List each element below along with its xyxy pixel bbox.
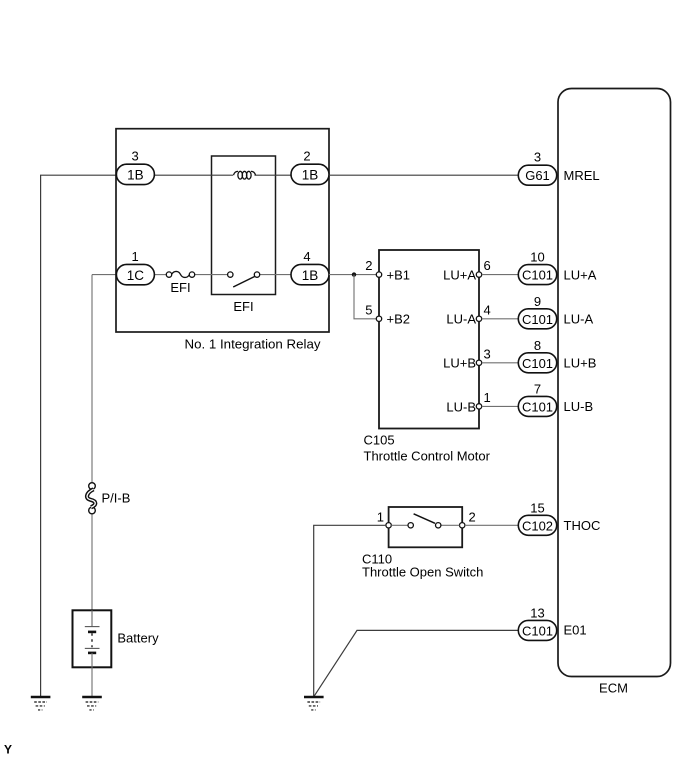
ECM — [558, 89, 671, 696]
svg-text:2: 2 — [469, 510, 476, 525]
svg-text:ECM: ECM — [599, 681, 628, 696]
connector C101 pin 10 — [518, 250, 596, 285]
svg-text:4: 4 — [484, 302, 491, 317]
connector C101 pin 7 — [518, 381, 593, 416]
switch contacts — [391, 514, 459, 528]
svg-text:2: 2 — [365, 258, 372, 273]
pin 4 LU-A — [446, 302, 490, 326]
svg-text:C105: C105 — [364, 433, 395, 448]
pin 5 +B2 — [365, 302, 410, 326]
pin 6 LU+A — [443, 258, 491, 282]
wire battery net vertical — [92, 275, 116, 627]
svg-text:C101: C101 — [522, 268, 553, 283]
svg-text:1B: 1B — [302, 268, 319, 283]
switch pin 1 — [377, 510, 392, 529]
motor C105 Throttle Control Motor — [364, 250, 491, 464]
svg-text:10: 10 — [530, 250, 544, 265]
wire LU-A — [482, 318, 519, 320]
junction node — [352, 272, 356, 276]
svg-text:LU+B: LU+B — [564, 356, 597, 371]
svg-text:C101: C101 — [522, 623, 553, 638]
switch C110 Throttle Open Switch — [362, 507, 483, 580]
wire junction to +B2 — [354, 275, 376, 319]
svg-text:LU-A: LU-A — [446, 312, 476, 327]
ground (battery) — [82, 697, 102, 710]
wire LU+A — [482, 274, 519, 276]
page index Y — [4, 743, 12, 757]
No. 1 Integration Relay box — [116, 129, 329, 352]
svg-text:6: 6 — [484, 258, 491, 273]
connector G61 pin 3 — [518, 150, 599, 186]
svg-text:EFI: EFI — [170, 280, 190, 295]
svg-text:7: 7 — [534, 381, 541, 396]
svg-text:LU+A: LU+A — [443, 268, 476, 283]
relay EFI inner box — [212, 156, 276, 314]
svg-text:4: 4 — [303, 249, 310, 264]
svg-text:No. 1 Integration Relay: No. 1 Integration Relay — [185, 337, 321, 352]
fusible link P/I-B — [87, 483, 130, 514]
battery — [73, 610, 160, 697]
relay switch contacts — [228, 272, 260, 287]
pin 3 LU+B — [443, 346, 491, 370]
ground (E01 / switch) — [304, 697, 324, 710]
connector C101 pin 13 — [518, 605, 586, 640]
svg-text:C101: C101 — [522, 312, 553, 327]
svg-text:1C: 1C — [127, 268, 145, 283]
svg-text:13: 13 — [530, 605, 544, 620]
svg-text:1B: 1B — [302, 168, 319, 183]
svg-text:3: 3 — [131, 149, 138, 164]
switch pin 2 — [460, 510, 476, 529]
relay coil — [234, 171, 256, 179]
terminal 1C pin 1 — [116, 249, 154, 285]
wire relay top row — [154, 174, 291, 176]
svg-text:9: 9 — [534, 294, 541, 309]
pin 1 LU-B — [446, 390, 490, 414]
svg-text:C101: C101 — [522, 356, 553, 371]
svg-text:1: 1 — [131, 249, 138, 264]
svg-text:15: 15 — [530, 500, 544, 515]
svg-text:MREL: MREL — [564, 168, 600, 183]
wire E01 — [314, 630, 519, 696]
wire LU-B — [482, 405, 519, 407]
svg-text:3: 3 — [534, 150, 541, 165]
svg-text:Y: Y — [4, 743, 12, 757]
svg-text:5: 5 — [365, 302, 372, 317]
pin 2 +B1 — [365, 258, 410, 282]
svg-text:Battery: Battery — [117, 631, 159, 646]
connector C102 pin 15 — [518, 500, 600, 535]
terminal 1B pin 2 — [291, 149, 329, 185]
svg-text:3: 3 — [484, 346, 491, 361]
fuse EFI — [166, 271, 194, 295]
svg-text:E01: E01 — [564, 623, 587, 638]
svg-text:LU+B: LU+B — [443, 356, 476, 371]
connector C101 pin 9 — [518, 294, 593, 329]
svg-text:8: 8 — [534, 338, 541, 353]
svg-text:1: 1 — [484, 390, 491, 405]
wire MREL net left branch — [41, 175, 117, 697]
svg-text:+B1: +B1 — [387, 268, 411, 283]
svg-text:LU-B: LU-B — [564, 399, 594, 414]
wire relay bottom row — [154, 274, 291, 276]
terminal 1B pin 4 — [291, 249, 329, 285]
svg-text:C102: C102 — [522, 518, 553, 533]
wire pin4 to +B1 — [329, 274, 376, 276]
svg-text:Throttle Open Switch: Throttle Open Switch — [362, 565, 483, 580]
terminal 1B pin 3 — [116, 149, 154, 185]
svg-text:THOC: THOC — [564, 518, 601, 533]
connector C101 pin 8 — [518, 338, 596, 373]
svg-text:+B2: +B2 — [387, 312, 411, 327]
svg-text:G61: G61 — [525, 168, 550, 183]
svg-text:2: 2 — [303, 149, 310, 164]
svg-text:LU+A: LU+A — [564, 267, 597, 282]
svg-text:P/I-B: P/I-B — [102, 491, 131, 506]
svg-text:C101: C101 — [522, 399, 553, 414]
svg-text:LU-A: LU-A — [564, 312, 594, 327]
wire THOC — [314, 525, 519, 697]
wire MREL to ECM — [329, 174, 518, 176]
wire LU+B — [482, 362, 519, 364]
svg-text:Throttle Control Motor: Throttle Control Motor — [364, 449, 491, 464]
svg-text:EFI: EFI — [233, 299, 253, 314]
svg-text:1B: 1B — [127, 168, 144, 183]
ground (left, battery feed) — [31, 697, 51, 710]
svg-text:LU-B: LU-B — [446, 399, 476, 414]
svg-text:1: 1 — [377, 510, 384, 525]
